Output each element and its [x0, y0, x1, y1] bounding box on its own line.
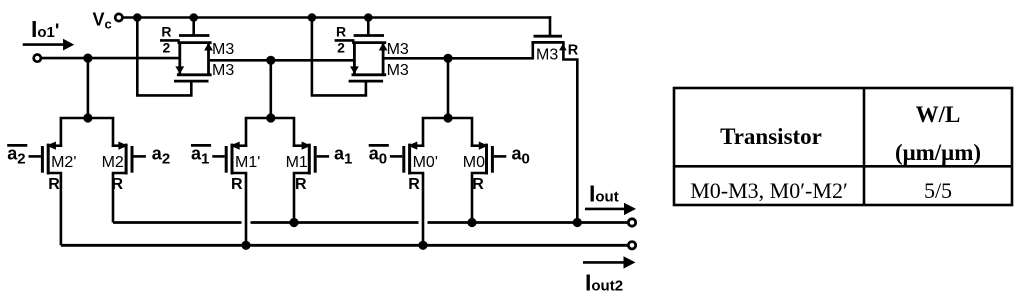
wire: Vc top rail [124, 16, 552, 19]
node: pair bit-2 drain junction [83, 113, 92, 122]
transistor M3 (cell 1 bottom): channel bar [177, 73, 212, 76]
current arrow into M1' [230, 142, 240, 150]
wire: source stub M1 [294, 173, 310, 223]
wire: cell 1 right edge [207, 43, 210, 75]
svg-text:R: R [408, 176, 420, 193]
current arrow into M0 [479, 142, 489, 150]
label a1 [334, 144, 352, 168]
wire: source stub M0 [472, 173, 488, 223]
svg-text:M2: M2 [102, 154, 124, 171]
wire: source stub M1' [231, 173, 246, 245]
wire: M3 output drain lead to Iout rail [563, 42, 577, 222]
node: pair bit-0 drain junction [443, 113, 452, 122]
current arrow up (cell 1) [204, 43, 213, 51]
wire: gate lead M1 [317, 155, 329, 158]
current arrow down (cell 1) [175, 66, 184, 74]
svg-text:M1': M1' [235, 154, 260, 171]
transistor M3 (cell 2 bottom): channel bar [352, 73, 387, 76]
node: junction input / bit-2 branch [83, 54, 92, 63]
svg-text:R: R [295, 176, 307, 193]
wire: gate lead M1' [212, 155, 224, 158]
node: pair bit-1 drain junction [266, 113, 275, 122]
wire: branch down to pair 1' [269, 60, 272, 118]
wire: drain stub M2' [49, 144, 62, 147]
wire: fraction bar / channel bar (cell 2 top M3) [335, 39, 355, 42]
node: M0 source on Iout rail [467, 218, 476, 227]
transistor M2': gate bar [41, 146, 44, 173]
wire: rail corner to M3 gate [549, 16, 552, 36]
terminal Vc [115, 14, 122, 21]
wire: gate lead M2 [134, 155, 146, 158]
wire: fraction bar / channel bar (cell 1 top M3) [160, 39, 180, 42]
transistor M2: channel bar [125, 144, 128, 175]
transistor M0': gate bar [402, 146, 405, 173]
wire: segment cell1 to cell2 [208, 59, 355, 62]
terminal Iout [628, 219, 635, 226]
wire: Vc to M3 bottom gate (cell 1) [137, 18, 191, 96]
wire: cell 2 left edge [353, 43, 356, 75]
output current arrow Iout [585, 203, 636, 215]
table frame [674, 88, 1012, 205]
wire: drain stub M1 [293, 144, 307, 147]
transistor M1': gate bar [225, 146, 228, 173]
label a2-bar [7, 144, 27, 168]
svg-text:M3: M3 [536, 46, 558, 63]
current arrow into M2' [46, 142, 56, 150]
current arrow up (cell 2) [379, 43, 388, 51]
transistor M3 (output): gate bar [534, 35, 563, 38]
svg-text:M3: M3 [212, 62, 234, 79]
svg-text:R: R [336, 23, 346, 39]
node: output M3 drain on Iout rail [573, 218, 582, 227]
wire: Vc to M3 bottom gate (cell 2) [312, 18, 366, 96]
transistor M1: gate bar [314, 146, 317, 173]
wire: source stub M2 [113, 173, 127, 223]
svg-text:5/5: 5/5 [924, 178, 952, 203]
transistor M3 (cell 2 top): gate bar [354, 34, 384, 37]
transistor M2': channel bar [47, 144, 50, 175]
wire: Iout rail [113, 221, 627, 224]
wire: pair bit-0 T bar and drain drops [423, 118, 472, 147]
label Vc [93, 10, 112, 32]
wire: cell 2 right edge [382, 43, 385, 75]
current arrow into M0' [408, 142, 418, 150]
wire: Iout2 rail [61, 244, 627, 247]
wire: source stub M2' [47, 173, 61, 245]
label Iout2 [585, 270, 623, 295]
wire: gate lead M0' [390, 155, 402, 158]
transistor M2: gate bar [131, 146, 134, 173]
wire: M3 output source lead (left) [531, 42, 534, 59]
svg-text:M0-M3, M0′-M2′: M0-M3, M0′-M2′ [690, 178, 848, 203]
input terminal Io1' [34, 55, 41, 62]
svg-text:W/L: W/L [916, 102, 961, 127]
transistor M3 (output): channel bar [531, 41, 564, 44]
svg-text:R: R [472, 176, 484, 193]
wire: pair bit-2 T bar and drain drops [61, 118, 113, 147]
transistor M1: channel bar [308, 144, 311, 175]
label a0 [512, 144, 530, 168]
svg-text:R: R [231, 176, 243, 193]
label Io1' [31, 16, 59, 42]
wire: segment cell2 to output M3 [382, 57, 533, 60]
svg-text:R: R [48, 176, 60, 193]
wire: source stub M0' [409, 173, 423, 245]
current arrow into M2 [118, 142, 128, 150]
node: junction / bit-1 branch [266, 56, 275, 65]
value label R/2 (cell 2) [336, 23, 346, 55]
wire: Vc to M3 top gate (cell 1) [192, 18, 195, 36]
node: Vc rail junction (cell2 bottom gate) [308, 13, 317, 22]
transistor M3 (cell 2 bottom): gate bar [349, 80, 384, 83]
svg-text:2: 2 [337, 40, 345, 56]
transistor M0: channel bar [485, 144, 488, 175]
wire: branch down to pair 2' [87, 58, 90, 118]
wire: pair bit-1 T bar and drain drops [246, 118, 294, 147]
svg-text:M3: M3 [387, 41, 409, 58]
wire: gate lead M2' [29, 155, 41, 158]
value label R/2 (cell 1) [161, 23, 171, 55]
node: Vc rail junction (cell2 top gate) [364, 13, 373, 22]
svg-text:(μm/μm): (μm/μm) [895, 140, 981, 165]
input current arrow Io1' [23, 39, 74, 51]
output current arrow Iout2 [583, 256, 636, 268]
svg-text:M1: M1 [286, 154, 308, 171]
node: M1 source on Iout rail [289, 218, 298, 227]
svg-text:M3: M3 [212, 41, 234, 58]
svg-text:M3: M3 [387, 62, 409, 79]
svg-text:M0: M0 [463, 154, 485, 171]
node: Vc rail junction (cell1 top gate) [189, 13, 198, 22]
node: M1' source on Iout2 rail [241, 241, 250, 250]
label Iout [589, 180, 619, 206]
wire: drain stub M2 [112, 144, 125, 147]
node: Vc rail junction (cell1 bottom gate) [133, 13, 142, 22]
svg-text:R: R [112, 176, 124, 193]
wire: gate lead M0 [494, 155, 506, 158]
current arrow up (output M3) [559, 44, 567, 51]
transistor M3 (cell 1 bottom): gate bar [174, 80, 209, 83]
wire: input segment to cell 1 [42, 57, 181, 60]
svg-text:2: 2 [163, 40, 171, 56]
svg-text:R: R [568, 42, 579, 58]
label a2 [152, 144, 170, 168]
svg-text:M2': M2' [51, 154, 76, 171]
wire: branch down to pair 0' [447, 58, 450, 118]
wire: drain stub M1' [233, 144, 247, 147]
wire: cell 1 left edge [178, 43, 181, 75]
wire: Vc to M3 top gate (cell 2) [367, 18, 370, 36]
current arrow into M1 [302, 142, 312, 150]
transistor M3 (cell 1 top): gate bar [179, 34, 209, 37]
svg-text:R: R [161, 23, 171, 39]
current arrow down (cell 2) [350, 66, 359, 74]
transistor M0': channel bar [408, 144, 411, 175]
label a1-bar [191, 144, 211, 168]
label a0-bar [369, 144, 389, 168]
svg-text:Transistor: Transistor [720, 124, 822, 149]
table header: W/L (um/um) [895, 102, 981, 165]
transistor M0: gate bar [491, 146, 494, 173]
node: M0' source on Iout2 rail [418, 241, 427, 250]
terminal Iout2 [628, 242, 635, 249]
wire: drain stub M0' [410, 144, 424, 147]
node: junction / bit-0 branch [443, 54, 452, 63]
transistor M1': channel bar [231, 144, 234, 175]
svg-text:M0': M0' [413, 154, 438, 171]
wire: drain stub M0 [471, 144, 484, 147]
